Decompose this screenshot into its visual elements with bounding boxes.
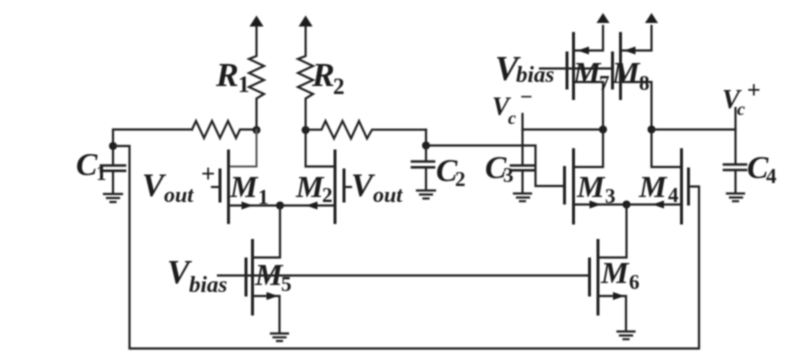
svg-text:1: 1 bbox=[258, 185, 269, 209]
label C3 bbox=[485, 149, 514, 187]
svg-text:4: 4 bbox=[668, 183, 679, 207]
svg-text:M: M bbox=[576, 169, 606, 204]
label R1 bbox=[215, 57, 250, 97]
svg-text:M: M bbox=[638, 169, 668, 204]
ground below C4 bbox=[727, 194, 744, 202]
wire Vbias to gates of M7 and M8 bbox=[540, 67, 613, 69]
svg-text:M: M bbox=[611, 55, 641, 90]
svg-text:M: M bbox=[295, 169, 325, 204]
wire: node B down to M5 drain bbox=[253, 206, 280, 258]
svg-text:+: + bbox=[201, 161, 215, 188]
svg-text:out: out bbox=[373, 182, 403, 207]
svg-text:M: M bbox=[600, 255, 630, 290]
ground below C1 bbox=[104, 194, 122, 202]
svg-text:M: M bbox=[229, 169, 259, 204]
wire: Vc+ stub bbox=[734, 108, 736, 164]
node D (drain node of M2 / bottom of R2) bbox=[302, 126, 310, 134]
label Vc- bbox=[492, 84, 533, 128]
svg-text:1: 1 bbox=[238, 72, 250, 97]
arrow on M3 source pointing right bbox=[590, 201, 602, 209]
svg-text:8: 8 bbox=[639, 71, 650, 95]
wire: node H down to M4 drain bbox=[652, 130, 682, 168]
svg-text:4: 4 bbox=[766, 164, 777, 188]
transistor M1 bbox=[212, 151, 280, 223]
node F (drains of M7/M3) bbox=[599, 126, 607, 134]
wire: C2 node to gate of M3 bbox=[426, 146, 565, 187]
node H (drains of M8/M4) bbox=[648, 126, 656, 134]
transistor M7 bbox=[567, 26, 603, 99]
transistor M5 bbox=[246, 241, 280, 333]
capacitor C2 bbox=[412, 146, 434, 191]
label R2 bbox=[311, 57, 345, 99]
label M2 bbox=[295, 169, 333, 207]
ground below M5 bbox=[271, 334, 288, 342]
label C2 bbox=[436, 152, 466, 191]
svg-text:3: 3 bbox=[605, 184, 616, 208]
ground below C2 bbox=[417, 191, 435, 199]
capacitor C3 bbox=[511, 130, 534, 194]
wire: R2 node down to M2 drain bbox=[306, 130, 335, 167]
arrow on M4 source pointing left bbox=[653, 201, 665, 209]
label M7 bbox=[572, 55, 610, 95]
wire: node H right to C4 / Vc+ bbox=[652, 128, 736, 130]
label Vout (right output) bbox=[351, 168, 403, 207]
label M4 bbox=[638, 169, 679, 207]
label M3 bbox=[576, 169, 616, 208]
svg-text:3: 3 bbox=[503, 163, 514, 187]
ground below M6 bbox=[618, 332, 635, 340]
transistor M4 bbox=[627, 150, 689, 223]
svg-text:2: 2 bbox=[455, 167, 466, 191]
wire: node G down to M6 drain bbox=[599, 205, 627, 258]
resistor R2 (vertical) bbox=[298, 26, 313, 130]
label Vout+ (left output) bbox=[142, 161, 215, 207]
resistor (horizontal, right of node under R2) bbox=[306, 121, 426, 139]
svg-text:2: 2 bbox=[333, 74, 345, 99]
svg-text:c: c bbox=[737, 99, 745, 119]
wire: node F up to M7 drain bbox=[574, 82, 604, 130]
arrow on M6 source pointing right bbox=[613, 292, 625, 300]
wire: corner down to C2 node bbox=[425, 130, 427, 146]
power supply arrow above R2 bbox=[299, 16, 313, 27]
transistor M3 bbox=[565, 150, 627, 223]
svg-text:bias: bias bbox=[516, 62, 554, 87]
node G (common sources of M3,M4) bbox=[623, 201, 631, 209]
label Vbias (bottom) bbox=[167, 254, 227, 297]
svg-text:out: out bbox=[164, 182, 194, 207]
wire: left corner from C1 node up and right to left resistor bbox=[113, 130, 192, 147]
arrow on M8 top lead pointing left bbox=[624, 47, 636, 55]
svg-text:2: 2 bbox=[322, 183, 333, 207]
label M5 bbox=[254, 257, 292, 296]
label M6 bbox=[600, 255, 640, 294]
arrow on M2 source pointing left bbox=[306, 202, 318, 210]
svg-text:7: 7 bbox=[599, 71, 610, 95]
svg-text:6: 6 bbox=[629, 270, 640, 294]
capacitor C1 bbox=[101, 146, 125, 193]
ground below C3 bbox=[514, 194, 531, 202]
label C1 bbox=[76, 146, 107, 185]
resistor R1 (vertical) bbox=[249, 26, 264, 130]
power supply arrow above M7 bbox=[597, 13, 610, 23]
node E (C2 top node) bbox=[422, 142, 430, 150]
label M8 bbox=[611, 55, 650, 95]
wire: Vc- stub and to node F bbox=[523, 114, 604, 130]
transistor M6 bbox=[590, 241, 627, 331]
svg-text:C: C bbox=[76, 146, 98, 182]
resistor (horizontal, left of node under R1) bbox=[192, 121, 257, 138]
power supply arrow above R1 bbox=[250, 16, 264, 27]
svg-text:1: 1 bbox=[96, 161, 107, 185]
wire: node F down to M3 drain bbox=[574, 130, 604, 168]
power supply arrow above M8 bbox=[645, 13, 658, 23]
arrow on M1 source pointing right bbox=[242, 202, 254, 210]
capacitor C4 bbox=[724, 165, 746, 194]
svg-text:M: M bbox=[572, 55, 602, 90]
wire Vbias to gates of M5 and M6 bbox=[218, 274, 590, 276]
label M1 bbox=[229, 169, 269, 209]
label Vc+ bbox=[722, 78, 761, 119]
svg-text:−: − bbox=[520, 84, 533, 109]
transistor M8 bbox=[613, 26, 652, 130]
wire: C1 node to bottom rail (feedback to M4 gate) bbox=[113, 146, 699, 349]
label Vbias (top) bbox=[495, 49, 554, 88]
arrow on M7 top lead pointing left bbox=[578, 47, 590, 55]
svg-text:R: R bbox=[215, 57, 239, 94]
node B (common sources of M1,M2) bbox=[276, 202, 284, 210]
node A (drain node of M1 / bottom of R1) bbox=[253, 126, 261, 134]
node C1 top bbox=[109, 142, 117, 150]
svg-text:+: + bbox=[747, 78, 761, 104]
arrow on M5 source pointing right bbox=[267, 292, 279, 300]
label C4 bbox=[747, 149, 777, 188]
transistor M2 bbox=[280, 151, 351, 223]
svg-text:c: c bbox=[508, 108, 516, 128]
svg-text:bias: bias bbox=[189, 272, 227, 297]
wire: R1 node down to M1 drain bbox=[229, 130, 257, 167]
svg-text:R: R bbox=[311, 57, 335, 94]
